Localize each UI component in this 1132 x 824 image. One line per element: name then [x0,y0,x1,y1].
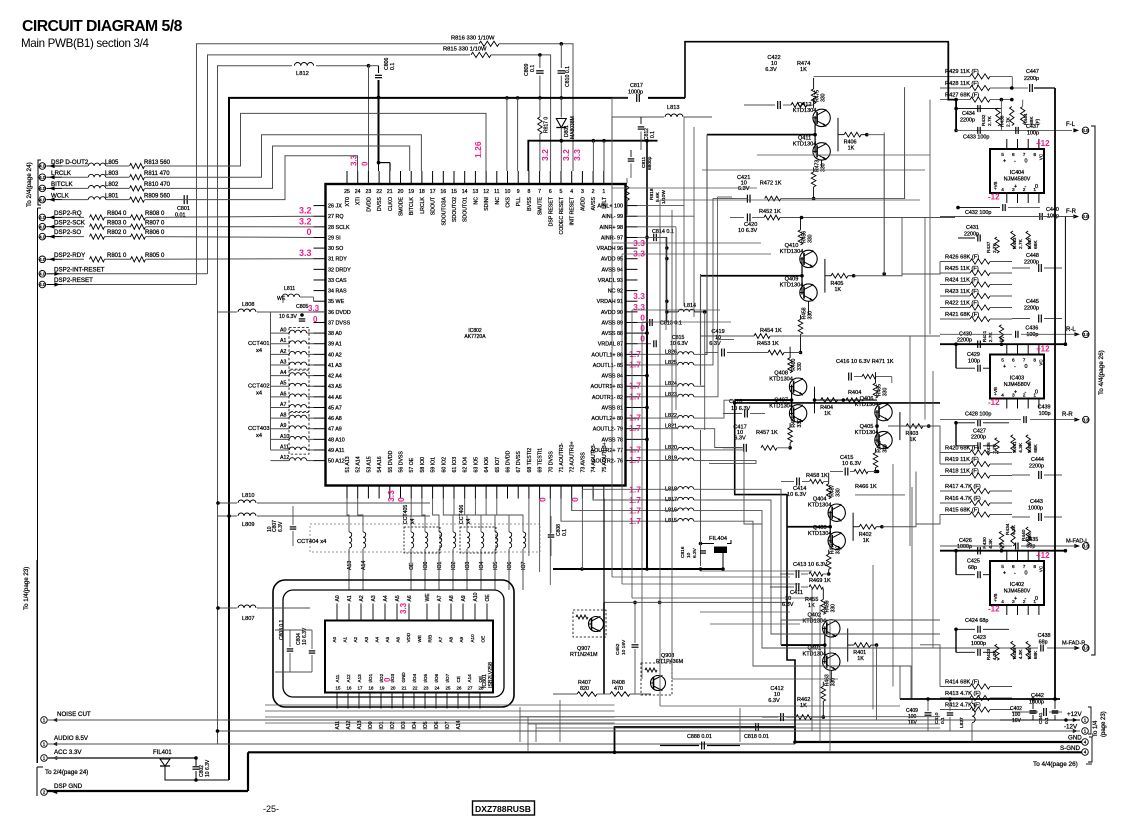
svg-text:CIRCUIT DIAGRAM 5/8: CIRCUIT DIAGRAM 5/8 [22,18,183,35]
svg-text:4.0: 4.0 [39,271,46,276]
svg-text:2.7K: 2.7K [992,242,998,253]
svg-text:-12: -12 [988,605,1000,614]
svg-text:C440: C440 [1046,207,1059,213]
svg-text:AVDD: AVDD [580,197,586,211]
svg-text:0.01: 0.01 [175,213,186,219]
svg-text:WE: WE [277,296,286,302]
svg-text:820: 820 [580,686,589,692]
svg-text:LFLT: LFLT [602,196,608,209]
svg-text:+: + [1014,184,1017,190]
svg-text:A13: A13 [357,720,363,729]
svg-text:IO3: IO3 [401,721,407,729]
svg-text:1.7: 1.7 [629,413,641,423]
svg-text:x4: x4 [256,348,263,354]
svg-text:1K: 1K [835,287,842,293]
svg-text:R446: R446 [1027,441,1033,453]
svg-text:32 DRDY: 32 DRDY [328,267,351,273]
svg-text:A4: A4 [374,636,379,642]
svg-text:61 IO3: 61 IO3 [452,457,458,473]
svg-text:R419 11K (F): R419 11K (F) [945,457,979,463]
svg-text:INIT RESET: INIT RESET [570,196,576,225]
svg-text:DSP D-OUT2: DSP D-OUT2 [51,159,89,166]
svg-text:20: 20 [398,189,404,195]
svg-text:WCLK: WCLK [51,192,70,199]
svg-text:17: 17 [358,686,363,691]
svg-text:65 IO7: 65 IO7 [495,457,501,473]
svg-text:VRDAH 91: VRDAH 91 [597,299,623,305]
svg-text:AOUTL1- 85: AOUTL1- 85 [593,363,623,369]
svg-text:3.2: 3.2 [299,206,312,216]
svg-text:R807 0: R807 0 [145,220,165,226]
svg-text:IO0: IO0 [368,721,374,729]
svg-text:R805 0: R805 0 [145,253,165,259]
svg-text:C437: C437 [1026,124,1039,130]
svg-text:SDOUTO1: SDOUTO1 [463,197,469,222]
svg-text:34 RAS: 34 RAS [328,289,347,295]
svg-text:x4: x4 [256,433,263,439]
svg-text:IO4: IO4 [412,721,418,729]
svg-text:OE: OE [485,594,491,602]
svg-text:BVSS: BVSS [527,196,533,210]
svg-text:2.7K: 2.7K [987,115,993,126]
svg-text:6: 6 [549,189,552,195]
svg-text:4: 4 [1001,393,1004,399]
svg-text:+VB: +VB [993,387,998,395]
svg-text:+12: +12 [1036,551,1050,560]
svg-text:C816: C816 [680,546,686,558]
svg-text:15: 15 [336,686,341,691]
svg-text:A11: A11 [335,721,341,730]
svg-text:2200p: 2200p [971,434,986,440]
svg-text:A10: A10 [473,592,479,601]
svg-text:DSP GND: DSP GND [54,783,83,790]
svg-text:9: 9 [517,189,520,195]
svg-text:A6: A6 [396,636,401,642]
svg-text:C410: C410 [934,712,940,724]
svg-text:6.3V: 6.3V [768,698,780,704]
svg-text:38 A0: 38 A0 [328,331,342,337]
svg-text:330: 330 [797,419,803,428]
svg-text:R453 1K: R453 1K [757,341,779,347]
svg-text:68K: 68K [1033,443,1039,452]
svg-text:IO3: IO3 [465,562,471,570]
svg-text:IO7: IO7 [521,562,527,570]
svg-text:R457 1K: R457 1K [756,430,778,436]
svg-text:7: 7 [1023,152,1026,158]
svg-text:R454 1K: R454 1K [760,328,782,334]
svg-text:3: 3 [581,189,584,195]
svg-text:R803 0: R803 0 [107,220,127,226]
svg-text:3.2: 3.2 [540,149,550,161]
svg-text:DXZ788RUSB: DXZ788RUSB [475,804,531,814]
svg-text:10 16V: 10 16V [621,639,627,655]
svg-text:10 6.3V: 10 6.3V [842,461,862,467]
svg-text:A0: A0 [335,595,341,601]
svg-text:4: 4 [1084,740,1087,745]
svg-text:KTD1304: KTD1304 [793,141,817,147]
svg-text:4: 4 [570,189,573,195]
svg-text:C416 10 6.3V R471 1K: C416 10 6.3V R471 1K [836,359,894,365]
svg-text:68K: 68K [1033,650,1039,659]
svg-text:NC 92: NC 92 [608,289,623,295]
svg-text:58 IO0: 58 IO0 [420,457,426,473]
svg-text:330: 330 [830,604,836,613]
svg-text:KTD1304: KTD1304 [769,377,793,383]
svg-text:+12V: +12V [1067,711,1082,718]
svg-text:8: 8 [1033,358,1036,364]
svg-text:+12: +12 [1036,139,1050,148]
svg-text:100p: 100p [1039,411,1051,417]
svg-text:12: 12 [483,189,489,195]
svg-text:24: 24 [355,189,361,195]
svg-text:R441: R441 [1012,441,1018,453]
svg-text:RT1N241M: RT1N241M [570,652,598,658]
svg-text:CCT403: CCT403 [248,426,270,432]
svg-text:R426 68K (F): R426 68K (F) [945,254,979,260]
svg-text:DSP2-RDY: DSP2-RDY [54,252,85,259]
svg-text:37 DVSS: 37 DVSS [328,320,351,326]
svg-text:3.8: 3.8 [1082,128,1089,133]
svg-text:1.7: 1.7 [629,484,641,494]
svg-text:BITCLK: BITCLK [409,196,415,215]
svg-text:19: 19 [408,189,414,195]
svg-text:DSP2-RESET: DSP2-RESET [54,277,93,284]
svg-text:XTI: XTI [356,197,362,205]
svg-text:10 6.3V: 10 6.3V [787,492,807,498]
svg-text:KTD1304: KTD1304 [780,283,804,289]
svg-text:DSP2-INT-RESET: DSP2-INT-RESET [54,266,105,273]
svg-text:0.1: 0.1 [940,717,946,724]
svg-text:8: 8 [1033,564,1036,570]
svg-text:R-R: R-R [1062,412,1073,418]
svg-text:CE: CE [456,676,461,682]
svg-text:L813: L813 [667,105,679,111]
svg-text:63 IO5: 63 IO5 [473,457,479,473]
svg-text:1K: 1K [824,411,831,417]
svg-text:R813 560: R813 560 [144,160,171,166]
svg-text:SMUTE: SMUTE [538,196,544,215]
svg-text:To 4/4(page 26): To 4/4(page 26) [1098,350,1105,395]
svg-text:0.1: 0.1 [390,63,396,70]
svg-text:10 6.3V: 10 6.3V [205,759,211,777]
svg-text:R817 0: R817 0 [544,117,550,133]
svg-text:21: 21 [387,189,393,195]
svg-text:0: 0 [1035,596,1038,602]
svg-text:I/O4: I/O4 [412,673,417,682]
svg-text:2200p: 2200p [960,118,975,124]
svg-text:C431: C431 [966,225,979,231]
svg-text:R/B: R/B [427,635,432,643]
svg-text:IO1: IO1 [437,562,443,570]
svg-text:330: 330 [836,488,842,497]
svg-text:17: 17 [430,189,436,195]
svg-text:C814 0.1: C814 0.1 [652,229,674,235]
svg-text:1.7: 1.7 [629,391,641,401]
svg-text:R802 0: R802 0 [107,230,127,236]
svg-text:A8: A8 [449,636,454,642]
svg-text:AVSS: AVSS [591,196,597,210]
svg-text:R809 560: R809 560 [144,193,171,199]
svg-text:NJM4580V: NJM4580V [1004,589,1031,595]
svg-text:26: 26 [457,686,462,691]
svg-text:57 OE: 57 OE [409,457,415,472]
svg-text:0: 0 [1035,184,1038,190]
svg-text:IO2: IO2 [390,721,396,729]
svg-text:KTD1304: KTD1304 [802,618,826,624]
svg-text:0: 0 [538,497,548,502]
svg-text:CCT402: CCT402 [248,384,270,390]
svg-text:4: 4 [1084,750,1087,755]
svg-text:0: 0 [396,497,406,502]
svg-text:50 A12: 50 A12 [328,459,345,465]
svg-text:10 6.3V: 10 6.3V [738,228,758,234]
svg-text:C438: C438 [1038,633,1051,639]
svg-text:1000p: 1000p [1029,700,1044,706]
svg-text:ISB2LV258: ISB2LV258 [488,662,494,688]
svg-text:(page 23): (page 23) [1101,711,1107,737]
svg-text:KTD1304: KTD1304 [802,652,826,658]
svg-text:C452: C452 [615,643,621,655]
svg-text:R423 11K (F): R423 11K (F) [945,289,979,295]
svg-text:15: 15 [451,189,457,195]
svg-text:4.0: 4.0 [39,175,46,180]
svg-text:0: 0 [1035,390,1038,396]
svg-text:C447: C447 [1026,69,1039,75]
svg-text:KTD1304: KTD1304 [808,503,832,509]
svg-text:42 A4: 42 A4 [328,374,342,380]
svg-text:1.7: 1.7 [629,349,641,359]
svg-text:4.0: 4.0 [39,257,46,262]
svg-text:A7: A7 [437,595,443,601]
svg-text:1.26: 1.26 [473,141,483,158]
svg-text:DSP2-RQ: DSP2-RQ [54,210,82,217]
svg-text:48 A10: 48 A10 [328,437,345,443]
svg-text:VRDAL 87: VRDAL 87 [598,342,623,348]
svg-text:R427 68K (F): R427 68K (F) [945,92,979,98]
svg-text:1K: 1K [800,67,807,73]
svg-text:+: + [1014,390,1017,396]
svg-text:2200p: 2200p [1024,260,1039,266]
svg-text:66 DVDD: 66 DVDD [506,450,512,472]
svg-text:1000p: 1000p [971,641,986,647]
svg-text:C425: C425 [967,559,980,565]
svg-text:56 DVSS: 56 DVSS [399,451,405,473]
svg-text:25: 25 [446,686,451,691]
svg-text:FIL401: FIL401 [153,750,172,756]
svg-text:A4: A4 [383,595,389,601]
svg-text:DSP2-SO: DSP2-SO [54,229,81,236]
svg-text:WE: WE [425,593,431,602]
svg-text:GND: GND [1068,735,1082,742]
svg-text:1: 1 [1084,729,1087,734]
svg-text:24: 24 [435,686,440,691]
svg-text:R811 470: R811 470 [144,171,170,177]
svg-text:C433 100p: C433 100p [963,135,989,141]
svg-text:C443: C443 [1030,499,1043,505]
svg-text:KTD1304: KTD1304 [855,430,879,436]
svg-text:IO7: IO7 [445,721,451,729]
svg-text:R431: R431 [982,330,988,342]
svg-text:29 SI: 29 SI [328,235,341,241]
svg-text:A11: A11 [335,674,340,682]
svg-text:VRADL 93: VRADL 93 [598,278,623,284]
svg-text:0: 0 [640,334,645,344]
svg-text:C810 0.1: C810 0.1 [565,66,571,87]
svg-text:R445: R445 [1027,648,1033,660]
svg-text:10: 10 [505,189,511,195]
svg-text:0: 0 [640,323,645,333]
svg-text:0: 0 [1025,364,1028,370]
svg-text:13: 13 [473,189,479,195]
svg-text:16V: 16V [908,720,918,726]
svg-text:64 IO6: 64 IO6 [484,457,490,473]
svg-text:L805: L805 [105,160,119,166]
svg-text:KTD1304: KTD1304 [769,403,793,409]
svg-text:A8: A8 [449,595,455,601]
svg-text:1.7: 1.7 [629,516,641,526]
svg-text:-25-: -25- [263,804,279,814]
svg-text:18: 18 [419,189,425,195]
svg-text:-: - [1014,159,1016,165]
svg-text:IO2: IO2 [451,562,457,570]
svg-text:CCT406: CCT406 [459,505,465,524]
svg-text:R414 68K (F): R414 68K (F) [945,679,979,685]
svg-text:AUDIO 8.5V: AUDIO 8.5V [54,735,89,742]
svg-text:A9: A9 [459,636,464,642]
svg-text:11: 11 [494,189,499,195]
svg-text:3.2: 3.2 [561,149,571,161]
svg-text:20: 20 [391,686,396,691]
svg-text:52 A14: 52 A14 [356,456,362,472]
svg-text:C439: C439 [1038,405,1051,411]
svg-text:3.8: 3.8 [1083,646,1090,651]
svg-text:SMODE: SMODE [399,196,405,216]
svg-text:3.3: 3.3 [386,490,396,502]
svg-text:+: + [1014,596,1017,602]
svg-text:-12: -12 [988,398,1000,407]
svg-text:6800p: 6800p [647,156,653,170]
svg-text:R430: R430 [982,537,988,549]
svg-text:R422 11K (F): R422 11K (F) [945,300,979,306]
svg-text:To 4/4(page 26): To 4/4(page 26) [1033,761,1078,768]
svg-text:SDOUT: SDOUT [431,196,437,215]
svg-text:IC402: IC402 [1010,582,1024,588]
svg-text:F-L: F-L [1066,122,1076,128]
svg-text:45 A7: 45 A7 [328,405,342,411]
svg-text:1K: 1K [857,656,864,662]
svg-text:A9: A9 [461,595,467,601]
svg-text:4.0: 4.0 [39,186,46,191]
svg-text:4.0: 4.0 [39,224,46,229]
svg-text:x4: x4 [256,391,263,397]
svg-text:KTD1304: KTD1304 [793,108,817,114]
svg-text:AOUTL2- 79: AOUTL2- 79 [593,427,623,433]
svg-text:DVSS: DVSS [377,196,383,211]
svg-text:35 WE: 35 WE [328,299,345,305]
svg-text:1.7: 1.7 [629,506,641,516]
svg-text:28: 28 [479,686,484,691]
svg-text:To 2/4(page 24): To 2/4(page 24) [45,769,88,776]
svg-text:23: 23 [424,686,429,691]
svg-text:A14: A14 [467,674,472,683]
svg-text:6.3V: 6.3V [709,341,721,347]
svg-text:54 A16: 54 A16 [377,456,383,472]
svg-text:DSP2-SCK: DSP2-SCK [54,219,86,226]
svg-text:R434: R434 [1005,523,1011,535]
svg-text:3.8: 3.8 [1082,214,1089,219]
svg-text:CCT404 x4: CCT404 x4 [297,539,327,545]
svg-text:68p: 68p [968,565,977,571]
svg-text:DSP RESET: DSP RESET [548,196,554,226]
svg-text:I/O6: I/O6 [434,673,439,682]
svg-text:4: 4 [1001,187,1004,193]
svg-text:R404: R404 [848,390,861,396]
svg-text:30 SO: 30 SO [328,246,343,252]
svg-text:L810: L810 [242,493,254,499]
svg-text:WE: WE [417,635,422,642]
svg-text:7: 7 [1023,564,1026,570]
svg-text:3.3: 3.3 [308,304,320,313]
svg-text:72 AOUTR3+: 72 AOUTR3+ [570,442,576,473]
svg-text:67 DVSS: 67 DVSS [516,451,522,473]
svg-text:4.3K: 4.3K [988,538,994,549]
svg-text:L827: L827 [959,717,965,728]
svg-text:4.3K: 4.3K [1018,442,1024,453]
svg-text:14: 14 [462,189,468,195]
svg-text:CCT401: CCT401 [248,341,270,347]
svg-text:C448: C448 [1026,253,1039,259]
svg-text:A10: A10 [470,634,475,643]
svg-text:GND: GND [401,672,406,683]
svg-text:1.7: 1.7 [629,495,641,505]
svg-text:470: 470 [614,686,623,692]
svg-text:5: 5 [1001,358,1004,364]
svg-text:71 AOUTR3-: 71 AOUTR3- [559,443,565,473]
svg-text:0: 0 [306,227,311,237]
svg-text:I/O1: I/O1 [368,673,373,682]
svg-text:49 A11: 49 A11 [328,448,344,454]
svg-text:R806 0: R806 0 [145,230,165,236]
svg-text:47 A9: 47 A9 [328,427,342,433]
svg-text:IO0: IO0 [423,562,429,570]
svg-text:27: 27 [468,686,473,691]
svg-text:A2: A2 [359,595,365,601]
svg-text:4.3K: 4.3K [1018,649,1024,660]
svg-text:A7: A7 [438,636,443,642]
svg-text:OE: OE [480,636,485,643]
svg-text:59 IO1: 59 IO1 [431,457,437,473]
svg-text:5: 5 [1001,564,1004,570]
svg-text:C428 100p: C428 100p [965,411,991,417]
svg-text:x4: x4 [410,518,416,524]
svg-text:ACC 3.3V: ACC 3.3V [54,749,82,756]
svg-text:51 A13: 51 A13 [345,456,351,472]
svg-text:-12V: -12V [1064,724,1078,731]
svg-text:4.0: 4.0 [39,282,46,287]
svg-text:2200p: 2200p [957,338,972,344]
svg-text:I/O7: I/O7 [445,673,450,682]
svg-text:40 A2: 40 A2 [328,352,342,358]
svg-text:AOUTL1+ 86: AOUTL1+ 86 [591,352,623,358]
svg-text:MA8038M: MA8038M [570,116,576,139]
svg-text:8: 8 [527,189,530,195]
svg-text:R417 4.7K (F): R417 4.7K (F) [945,484,981,490]
svg-text:A3: A3 [371,595,377,601]
svg-text:R801 0: R801 0 [107,253,127,259]
svg-text:-: - [1014,364,1016,370]
svg-text:1K: 1K [863,538,870,544]
svg-text:C424 68p: C424 68p [965,618,988,624]
